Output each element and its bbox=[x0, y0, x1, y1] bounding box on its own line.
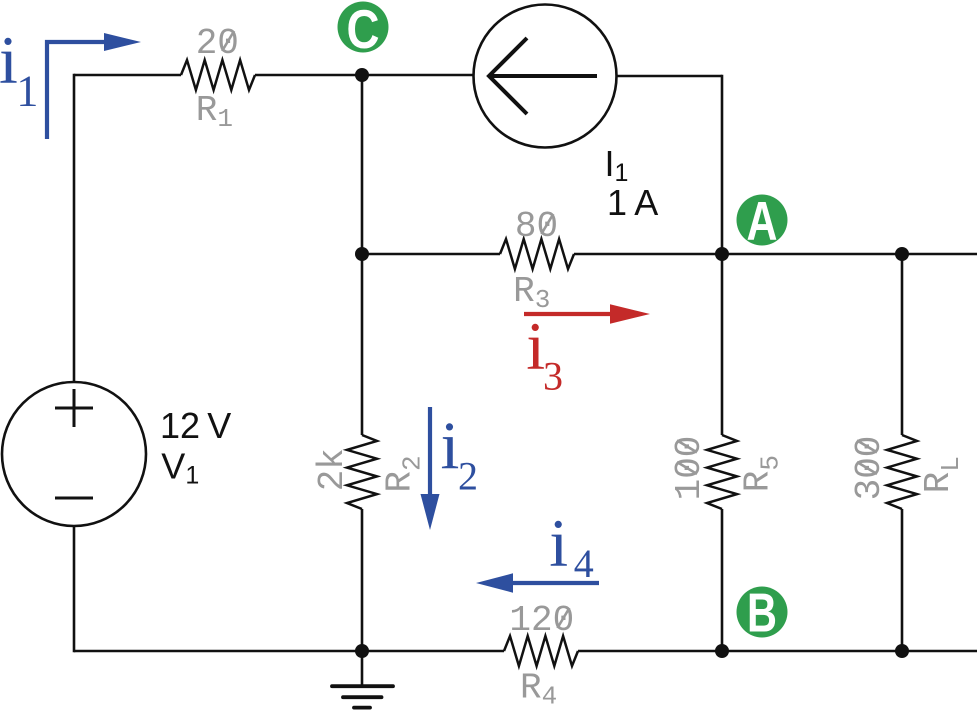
wire R5 branch vertical top bbox=[721, 254, 724, 435]
V1 plus sign bbox=[55, 389, 93, 427]
label R3 bbox=[513, 271, 550, 315]
svg-text:120: 120 bbox=[509, 600, 574, 641]
label I1 bbox=[605, 143, 629, 187]
label 300 (rotated) bbox=[849, 436, 890, 501]
label R2 (rotated) bbox=[380, 455, 428, 492]
junction node A bbox=[715, 247, 729, 261]
svg-text:B: B bbox=[747, 582, 777, 644]
wire from R1 to current source bbox=[255, 74, 474, 77]
svg-text:2k: 2k bbox=[312, 448, 353, 491]
svg-text:C: C bbox=[347, 0, 380, 60]
label i3 bbox=[526, 308, 563, 398]
svg-text:i: i bbox=[549, 505, 568, 581]
junction bottom rail / ground bbox=[355, 644, 369, 658]
label i1 bbox=[0, 22, 38, 116]
label RL (rotated) bbox=[918, 456, 966, 493]
node B badge bbox=[737, 582, 788, 644]
wire right vertical from corner down to node A bbox=[721, 75, 724, 254]
label 80 bbox=[515, 206, 558, 247]
svg-text:1: 1 bbox=[16, 67, 38, 116]
V1 minus sign bbox=[55, 497, 93, 500]
label R1 bbox=[196, 90, 233, 134]
resistor R5 bbox=[707, 435, 737, 509]
node A badge bbox=[737, 190, 788, 252]
svg-text:i: i bbox=[441, 407, 460, 483]
wire middle horizontal rail y=254 bbox=[362, 253, 500, 256]
node C badge bbox=[338, 0, 389, 60]
svg-text:3: 3 bbox=[543, 353, 563, 398]
current arrow i1 bbox=[47, 33, 141, 139]
wire bottom rail left of R4 bbox=[74, 650, 504, 653]
current arrow i3 bbox=[524, 304, 650, 323]
wire RL bottom to bottom rail bbox=[901, 509, 904, 651]
resistor R3 bbox=[500, 239, 574, 269]
label R4 bbox=[520, 668, 557, 712]
svg-text:i: i bbox=[0, 22, 18, 98]
resistor R2 bbox=[347, 435, 377, 509]
ground bbox=[332, 651, 393, 708]
junction at node C bbox=[355, 68, 369, 82]
resistor RL bbox=[887, 435, 917, 509]
wire from current source right to corner bbox=[617, 75, 723, 78]
svg-text:2: 2 bbox=[458, 453, 478, 498]
label i2 bbox=[441, 407, 479, 498]
label 2k (rotated) bbox=[312, 448, 353, 491]
wire top-left horizontal from V1 branch to R1 bbox=[74, 74, 181, 77]
junction node B bbox=[715, 644, 729, 658]
svg-text:1 A: 1 A bbox=[607, 182, 658, 223]
label 20 bbox=[196, 23, 239, 64]
wire left vertical lower (V1 minus to bottom rail) bbox=[73, 525, 76, 652]
svg-text:80: 80 bbox=[515, 206, 558, 247]
wire R2 bottom to bottom rail bbox=[361, 509, 364, 651]
svg-text:4: 4 bbox=[574, 541, 594, 586]
resistor R4 bbox=[504, 636, 578, 666]
junction bottom rail / RL bbox=[895, 644, 909, 658]
wire left vertical upper (to V1 plus) bbox=[73, 74, 76, 383]
junction middle rail / RL bbox=[895, 247, 909, 261]
svg-text:A: A bbox=[747, 190, 778, 252]
wire node C vertical down to R2 bbox=[361, 75, 364, 435]
current source I1 arrow bbox=[489, 38, 597, 114]
wire bottom rail right of R4 bbox=[578, 650, 977, 653]
label V1 bbox=[161, 446, 199, 490]
label i4 bbox=[549, 505, 594, 586]
svg-text:20: 20 bbox=[196, 23, 239, 64]
label 120 bbox=[509, 600, 574, 641]
label 100 (rotated) bbox=[669, 436, 710, 501]
voltage source V1 circle bbox=[2, 382, 146, 526]
wire RL branch vertical top bbox=[901, 254, 904, 435]
current arrow i4 bbox=[476, 573, 599, 592]
label 12 V bbox=[160, 405, 231, 446]
wire middle rail from R3 to right edge bbox=[574, 253, 977, 256]
label R5 (rotated) bbox=[738, 455, 786, 492]
label 1 A bbox=[607, 182, 658, 223]
current source I1 circle bbox=[474, 5, 617, 148]
junction node C / middle rail bbox=[355, 247, 369, 261]
resistor R1 bbox=[181, 60, 255, 90]
svg-text:12 V: 12 V bbox=[160, 405, 231, 446]
current arrow i2 bbox=[421, 407, 440, 530]
wire R5 bottom to bottom rail bbox=[721, 509, 724, 651]
